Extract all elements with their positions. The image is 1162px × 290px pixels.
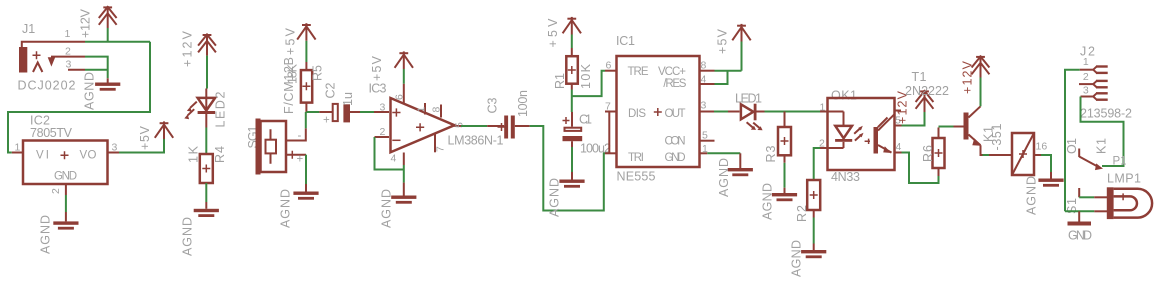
- svg-text:C1: C1: [579, 113, 592, 127]
- svg-text:VO: VO: [80, 150, 97, 162]
- svg-text:3: 3: [1083, 85, 1089, 97]
- svg-text:LED2: LED2: [214, 91, 228, 127]
- capacitor C2 1u: [319, 82, 360, 126]
- supply +5V at R5: [297, 23, 315, 41]
- ground AGND at coil: [1050, 172, 1052, 179]
- supply +12V at LED2 chain: [198, 34, 216, 56]
- svg-text:2: 2: [380, 126, 386, 138]
- resistor R5 18K: [286, 62, 325, 112]
- wire J2 pin3 to switch: [1081, 97, 1124, 167]
- connector J1 (DCJ0202 power jack): [18, 22, 86, 93]
- svg-text:AGND: AGND: [380, 189, 394, 228]
- svg-text:213598-2: 213598-2: [1080, 107, 1132, 121]
- svg-text:IC1: IC1: [616, 34, 635, 48]
- wire SG1 plus to ground: [305, 155, 307, 184]
- ground AGND at R3: [784, 188, 786, 193]
- optocoupler OK1 4N33: [819, 89, 902, 185]
- wire T1 collector to +12V: [980, 78, 982, 107]
- ground AGND at C1: [571, 172, 573, 180]
- wire J1 pin2/pin3 to ground: [85, 57, 108, 79]
- svg-text:1K: 1K: [187, 145, 201, 163]
- supply +12V at OK1: [916, 90, 934, 112]
- svg-text:7: 7: [605, 101, 611, 113]
- capacitor C1 100u2: [563, 112, 612, 156]
- svg-text:AGND: AGND: [181, 217, 195, 256]
- supply +12V symbol at J1: [99, 6, 117, 28]
- svg-text:C2: C2: [324, 82, 338, 98]
- svg-text:1: 1: [1083, 56, 1089, 68]
- lamp LMP1: [1094, 156, 1152, 220]
- ground AGND at J1: [107, 78, 109, 82]
- svg-text:LED1: LED1: [735, 92, 762, 106]
- LED LED1: [728, 92, 765, 131]
- ground AGND at R4: [205, 202, 207, 209]
- svg-text:LMP1: LMP1: [1107, 172, 1141, 186]
- svg-text:K1: K1: [1095, 138, 1109, 154]
- svg-text:1: 1: [702, 143, 708, 155]
- supply +5V at IC1: [732, 24, 750, 42]
- svg-text:R5: R5: [311, 65, 325, 81]
- svg-text:AGND: AGND: [790, 240, 804, 277]
- svg-text:+12V: +12V: [79, 8, 93, 38]
- svg-text:7805TV: 7805TV: [30, 126, 73, 140]
- wire OK1 collector to +12V: [902, 112, 925, 126]
- svg-text:+12V: +12V: [961, 60, 975, 94]
- svg-text:4: 4: [701, 74, 707, 86]
- svg-text:J1: J1: [22, 22, 35, 36]
- svg-text:O1: O1: [1065, 138, 1079, 154]
- wire LED2 to R4: [205, 128, 207, 155]
- svg-text:4N33: 4N33: [831, 170, 860, 184]
- svg-text:+5V: +5V: [138, 125, 152, 150]
- svg-text:GND: GND: [665, 152, 686, 164]
- wire switch to lamp pin1: [1079, 196, 1094, 198]
- wire LED1 to R3 junction and OK1: [765, 111, 821, 113]
- wire +12V net from J1 pin 1: [8, 28, 150, 153]
- relay coil K1 -351: [982, 123, 1048, 175]
- wire J2 pin1 to lamp: [1065, 70, 1080, 212]
- wire C2 to IC3 input: [360, 111, 374, 113]
- wire lamp pin2 to GND: [1065, 210, 1094, 212]
- transistor T1 2N2222: [905, 70, 983, 155]
- LED LED2: [184, 89, 227, 128]
- svg-text:R3: R3: [764, 145, 778, 162]
- wire R6 to T1 base: [939, 126, 954, 128]
- svg-text:100n: 100n: [516, 90, 530, 117]
- relay contact S1 of K1: [1065, 138, 1109, 214]
- svg-text:16: 16: [1036, 141, 1048, 153]
- ground AGND at IC2: [65, 212, 67, 221]
- ground AGND at IC1: [739, 153, 741, 168]
- svg-text:1u: 1u: [341, 92, 355, 106]
- svg-text:+5V: +5V: [370, 55, 384, 81]
- svg-text:7: 7: [435, 146, 447, 152]
- wire coil to ground: [1041, 155, 1051, 172]
- wire T1 emitter to relay coil: [983, 154, 990, 156]
- wire OK1 cathode to R2: [814, 148, 820, 180]
- wire IC1 GND to ground: [707, 152, 740, 154]
- svg-text:2: 2: [819, 138, 825, 150]
- svg-text:IC3: IC3: [369, 82, 387, 96]
- wire OK1 emitter to R6: [902, 153, 939, 184]
- wire R4 to ground: [205, 183, 207, 202]
- wire IC2 pin2 to ground: [65, 195, 67, 212]
- svg-text:LM386N-1: LM386N-1: [448, 134, 504, 148]
- svg-text:DCJ0202: DCJ0202: [18, 79, 76, 93]
- op-amp IC3 LM386N-1: [369, 82, 504, 166]
- wire IC2 out to +5V: [119, 139, 164, 153]
- svg-text:+5V: +5V: [284, 27, 298, 55]
- ground GND at lamp: [1078, 211, 1080, 221]
- svg-text:3: 3: [66, 59, 72, 71]
- svg-text:AGND: AGND: [279, 189, 293, 228]
- resistor R6: [921, 128, 945, 177]
- ground AGND at SG1: [305, 184, 307, 192]
- resistor R2: [795, 180, 820, 222]
- wire C1 to ground: [571, 147, 573, 172]
- svg-text:VI: VI: [36, 150, 49, 162]
- wire IC1 VCC/RES to +5V: [715, 42, 742, 85]
- svg-text:AGND: AGND: [83, 72, 97, 110]
- timer IC1 NE555: [605, 34, 715, 184]
- svg-text:+: +: [323, 115, 330, 127]
- microphone SG1 F/CM12B: [246, 57, 306, 175]
- svg-text:+5V: +5V: [716, 28, 730, 54]
- supply +12V at T1: [972, 56, 990, 78]
- svg-text:1: 1: [416, 107, 428, 113]
- svg-text:CON: CON: [665, 136, 686, 148]
- svg-text:GND: GND: [1068, 229, 1092, 243]
- svg-text:4: 4: [896, 141, 902, 153]
- svg-text:2: 2: [1083, 71, 1089, 83]
- svg-text:VCC+: VCC+: [658, 66, 686, 78]
- resistor R3: [764, 112, 791, 163]
- ground AGND at IC3: [403, 183, 405, 196]
- wire R3 to ground: [784, 163, 786, 188]
- svg-text:OK1: OK1: [831, 89, 857, 103]
- svg-text:R4: R4: [213, 146, 227, 163]
- svg-text:TRE: TRE: [628, 66, 649, 78]
- wire +5V to R5: [305, 41, 307, 62]
- supply +5V at IC3: [403, 69, 405, 84]
- svg-text:+12V: +12V: [181, 30, 195, 67]
- svg-text:+5V: +5V: [546, 18, 560, 48]
- supply +5V at IC2: [155, 121, 173, 139]
- wire IC1 OUT to LED1: [714, 111, 728, 113]
- svg-text:5: 5: [702, 130, 708, 142]
- svg-text:R1: R1: [553, 73, 567, 89]
- svg-text:R6: R6: [921, 145, 935, 162]
- svg-text:6: 6: [394, 94, 406, 100]
- svg-text:OUT: OUT: [665, 108, 686, 120]
- svg-text:C3: C3: [486, 97, 500, 113]
- svg-text:TRI: TRI: [628, 152, 644, 164]
- svg-text:3: 3: [380, 102, 386, 114]
- svg-text:2: 2: [50, 188, 62, 194]
- svg-text:GND: GND: [54, 171, 77, 183]
- wire IC3 out to C3: [461, 125, 487, 127]
- svg-text:AGND: AGND: [548, 178, 562, 217]
- svg-text:R2: R2: [795, 205, 809, 222]
- svg-text:3: 3: [701, 100, 707, 112]
- svg-text:8: 8: [431, 107, 443, 113]
- svg-text:DIS: DIS: [628, 108, 646, 120]
- svg-text:-: -: [298, 130, 302, 142]
- svg-text:+: +: [297, 154, 304, 166]
- wire R2 to ground: [813, 218, 815, 244]
- supply +5V at R1: [563, 17, 581, 35]
- svg-text:P1: P1: [1113, 156, 1127, 168]
- wire IC3 feedback pin2 to pin4 net: [375, 137, 404, 183]
- voltage regulator IC2 7805TV: [12, 114, 119, 196]
- svg-text:AGND: AGND: [761, 183, 775, 220]
- resistor R4 1K: [187, 145, 228, 183]
- wire +12V to LED2: [206, 56, 208, 89]
- svg-text:AGND: AGND: [717, 158, 731, 197]
- svg-text:2: 2: [65, 46, 71, 58]
- svg-text:NE555: NE555: [617, 170, 656, 184]
- svg-text:T1: T1: [912, 70, 927, 84]
- svg-text:2N2222: 2N2222: [905, 84, 949, 98]
- wire mic node: [306, 112, 320, 128]
- svg-text:/RES: /RES: [663, 78, 686, 90]
- wire R1 to TRE and C1: [572, 71, 605, 112]
- svg-text:AGND: AGND: [1025, 176, 1039, 215]
- svg-text:4: 4: [391, 153, 397, 165]
- svg-text:AGND: AGND: [39, 215, 53, 254]
- svg-text:18K: 18K: [286, 63, 300, 84]
- connector J2 213598-2: [1079, 45, 1132, 121]
- svg-text:8: 8: [701, 60, 707, 72]
- capacitor C3 100n: [486, 90, 531, 139]
- svg-text:10K: 10K: [579, 63, 593, 89]
- wire +5V to R1: [571, 35, 573, 49]
- svg-text:1: 1: [820, 102, 826, 114]
- wire C3 to TRI of IC1: [530, 126, 605, 211]
- svg-text:6: 6: [606, 60, 612, 72]
- resistor R1 10K: [553, 48, 593, 90]
- ground AGND at R2: [813, 244, 815, 251]
- svg-text:-351: -351: [990, 123, 1004, 150]
- svg-text:1: 1: [65, 28, 71, 40]
